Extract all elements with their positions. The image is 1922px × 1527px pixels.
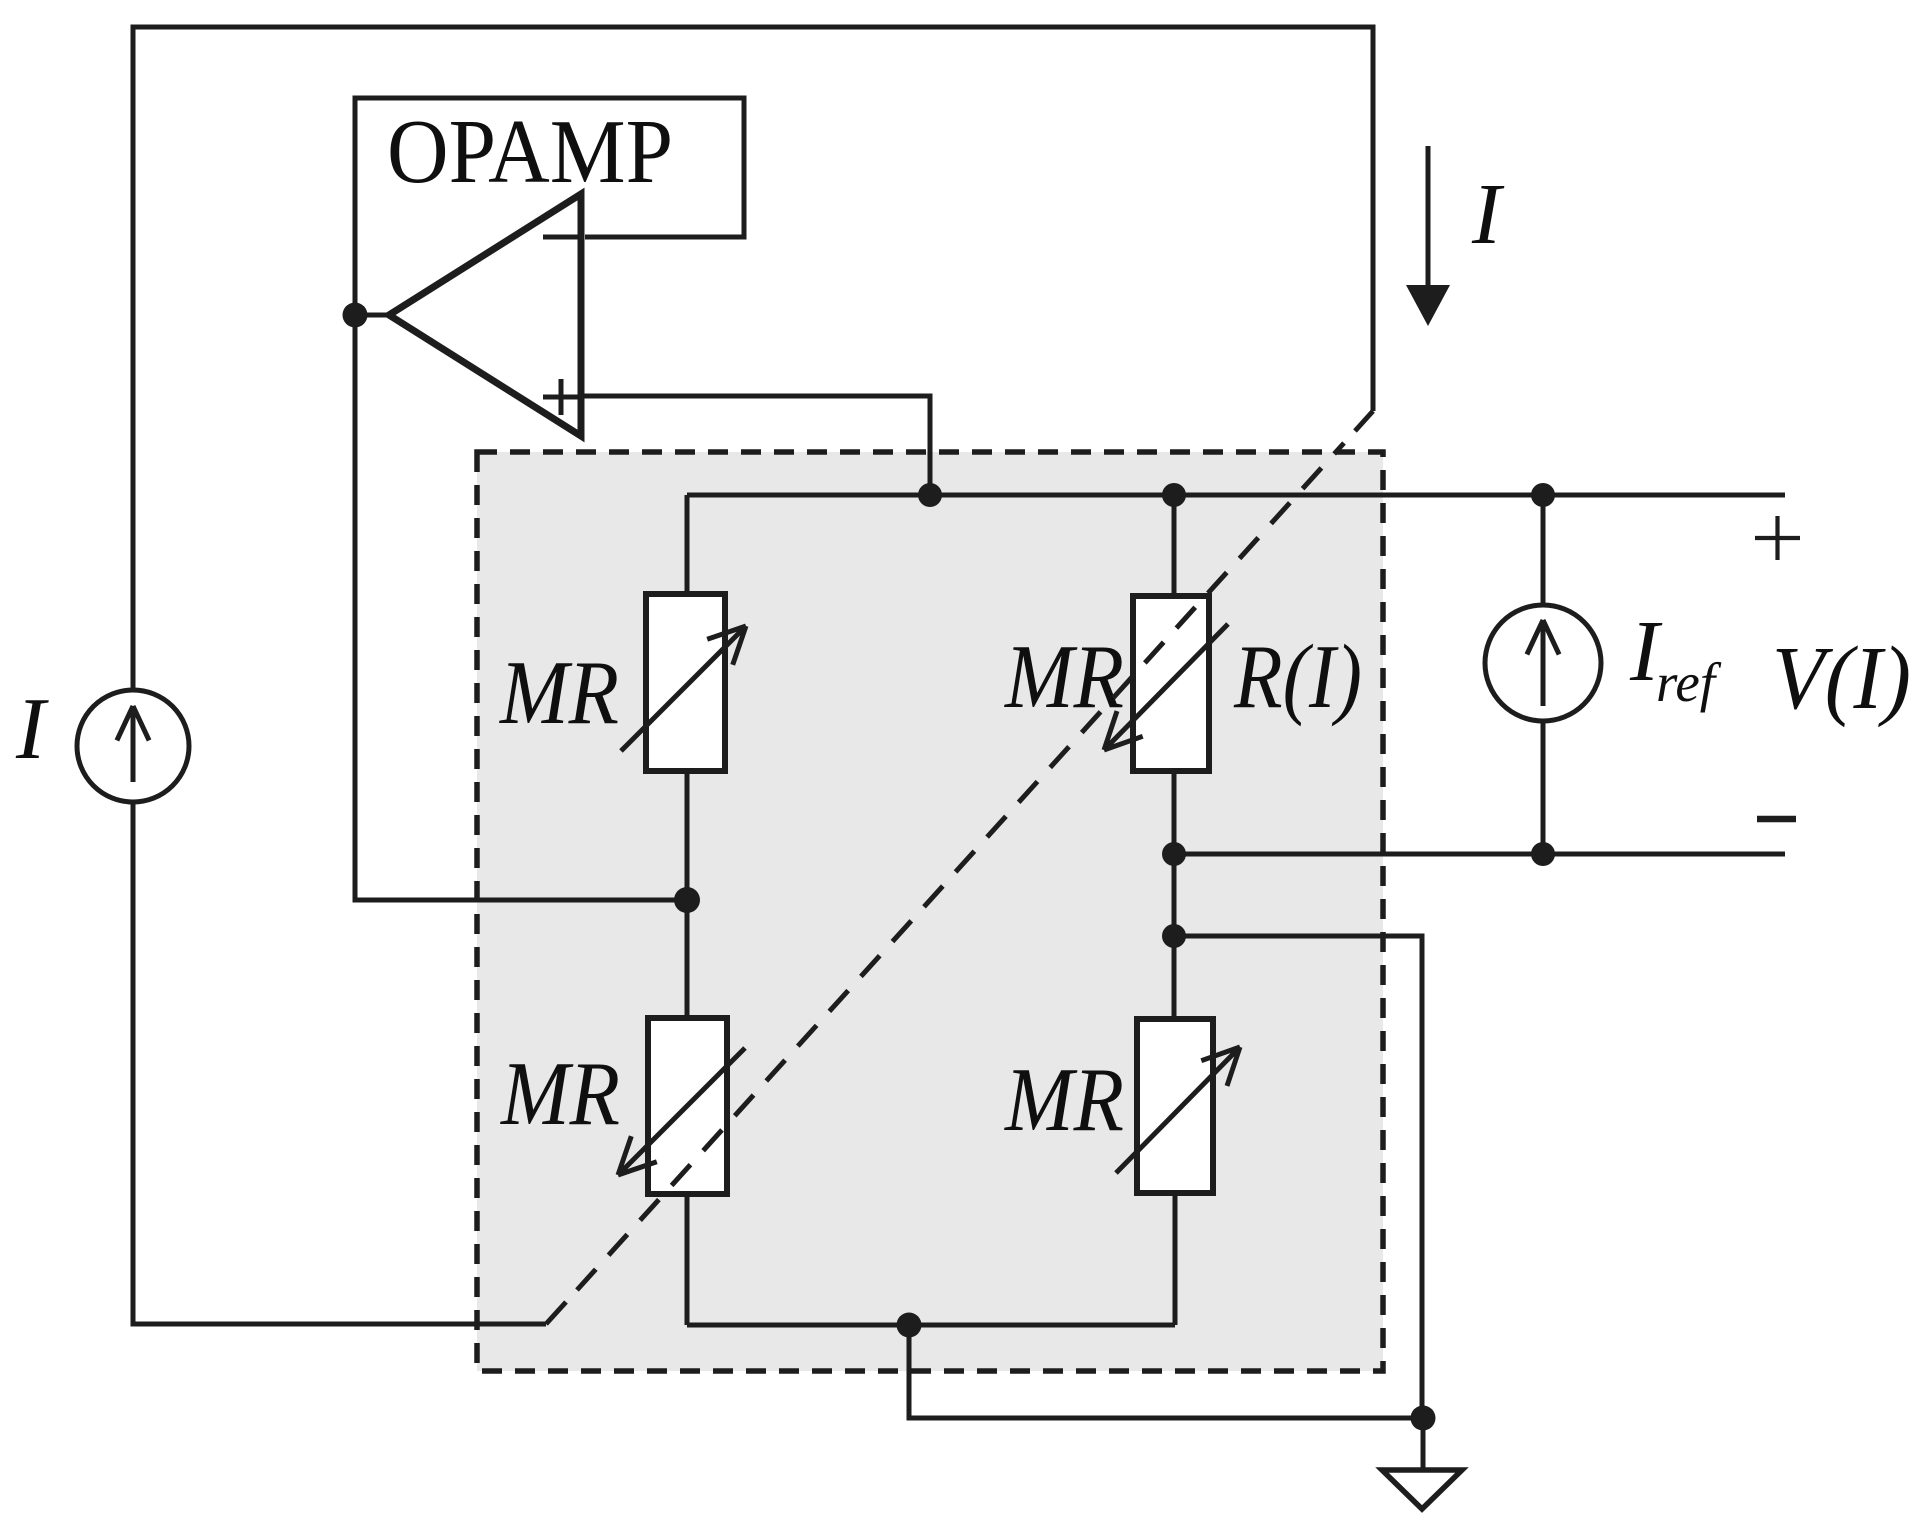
current source I arrow	[117, 706, 149, 782]
bridge bottom wire	[687, 1323, 1175, 1328]
bridge right leg middle	[1172, 771, 1177, 1019]
bridge top wire	[687, 493, 1785, 498]
svg-text:OPAMP: OPAMP	[387, 101, 673, 202]
svg-text:MR: MR	[1003, 626, 1124, 727]
current source I circle	[77, 690, 189, 802]
dashed diagonal solid end top	[1355, 411, 1373, 431]
current source Iref arrow	[1527, 620, 1559, 706]
svg-text:ref: ref	[1656, 652, 1722, 713]
svg-text:I: I	[15, 681, 49, 778]
node dot plus-input junction	[918, 483, 942, 507]
bridge right leg upper	[1172, 495, 1177, 596]
svg-text:I: I	[1471, 165, 1505, 262]
op-amp output stub	[355, 313, 389, 318]
resistor MR1 box	[646, 594, 725, 771]
wire bridge bottom node to ground	[909, 1325, 1423, 1418]
bridge left leg middle	[685, 771, 690, 1018]
svg-text:MR: MR	[498, 642, 619, 743]
dashed diagonal	[577, 443, 1344, 1290]
resistor MR3 box	[648, 1018, 727, 1194]
resistor MR2 arrow	[1104, 624, 1228, 750]
wire ground branch right and down	[1174, 936, 1422, 1418]
resistor MR1 arrow	[621, 626, 746, 751]
node dot ground branch	[1162, 924, 1186, 948]
svg-text:MR: MR	[499, 1043, 620, 1144]
node dot bridge bottom	[897, 1313, 922, 1338]
svg-text:V(I): V(I)	[1772, 629, 1911, 728]
svg-text:R(I): R(I)	[1233, 626, 1362, 727]
node dot Iref bottom	[1531, 842, 1555, 866]
wire output minus row	[1174, 852, 1785, 857]
current source Iref circle	[1485, 605, 1601, 721]
dashed diagonal solid end bottom	[546, 1302, 566, 1324]
node dot bridge left mid	[674, 887, 700, 913]
output minus sign	[1757, 816, 1796, 823]
op-amp U1 triangle	[389, 194, 581, 436]
op-amp minus sign	[543, 235, 579, 240]
resistor MR4 box	[1137, 1019, 1213, 1193]
resistor MR3 arrow	[618, 1048, 745, 1175]
node dot bridge top right	[1162, 483, 1186, 507]
node dot Iref top	[1531, 483, 1555, 507]
current source Iref leads	[1541, 495, 1546, 854]
node dot opamp output	[343, 303, 368, 328]
sensor package dashed box	[477, 452, 1383, 1371]
bridge left leg lower	[685, 1194, 690, 1325]
wire op-amp plus input to bridge top	[581, 396, 930, 495]
bridge left leg upper	[685, 495, 690, 594]
output plus sign	[1755, 516, 1800, 560]
current direction arrow I top right	[1426, 146, 1431, 290]
opamp feedback wire and output run	[355, 98, 744, 900]
node dot output plus row	[1162, 842, 1186, 866]
wire outer loop: left up, top, right down	[133, 27, 1373, 690]
svg-text:MR: MR	[1003, 1049, 1124, 1150]
resistor MR2 box	[1133, 596, 1209, 771]
ground stub	[1421, 1418, 1426, 1470]
wire left lower and bottom to diagonal	[133, 802, 546, 1324]
node dot ground	[1411, 1406, 1436, 1431]
bridge right leg lower	[1173, 1193, 1178, 1325]
op-amp plus sign	[543, 379, 579, 415]
resistor MR4 arrow	[1116, 1047, 1240, 1173]
ground symbol	[1382, 1470, 1462, 1509]
